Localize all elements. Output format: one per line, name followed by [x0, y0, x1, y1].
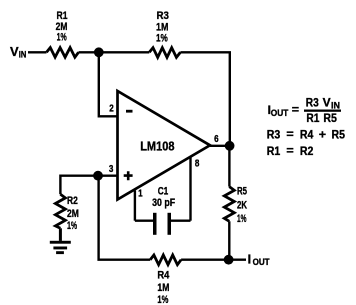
svg-text:3: 3 — [109, 163, 114, 175]
svg-text:+: + — [319, 127, 326, 141]
svg-text:OUT: OUT — [253, 257, 270, 267]
svg-text:R2: R2 — [67, 195, 78, 207]
svg-text:R4: R4 — [157, 270, 170, 282]
svg-text:IN: IN — [331, 100, 340, 110]
node VIN input label — [10, 44, 26, 60]
svg-text:R5: R5 — [332, 128, 346, 142]
svg-text:1: 1 — [138, 188, 143, 200]
node B pin 3 junction dot — [93, 171, 103, 181]
wire R2 to ground — [59, 228, 62, 241]
op-amp U1 LM108 triangle — [118, 91, 211, 200]
svg-text:V: V — [10, 44, 19, 59]
resistor R3 1M 1% — [149, 10, 180, 57]
svg-text:IN: IN — [19, 50, 27, 60]
non-inverting input plus symbol — [124, 171, 133, 180]
svg-text:R1: R1 — [267, 144, 281, 158]
ground — [50, 241, 71, 254]
svg-text:2K: 2K — [237, 200, 247, 212]
svg-text:OUT: OUT — [271, 108, 289, 118]
equation IOUT = R3 VIN / R1 R5 — [268, 95, 341, 125]
wire node C to IOUT terminal — [229, 259, 246, 261]
wire node A down to pin 2 — [99, 52, 117, 116]
equation R3 = R4 + R5 — [267, 127, 345, 141]
svg-text:C1: C1 — [158, 185, 169, 197]
svg-text:R4: R4 — [300, 128, 314, 142]
wire op-amp output to node D — [210, 145, 230, 147]
node IOUT label — [248, 251, 270, 267]
svg-text:=: = — [286, 127, 293, 141]
resistor R5 2K 1% — [224, 185, 247, 225]
svg-text:R1: R1 — [306, 111, 319, 125]
wire R3 right and down to pin 6 node — [180, 52, 229, 146]
svg-text:1%: 1% — [237, 213, 247, 225]
svg-text:1%: 1% — [156, 33, 168, 45]
wire R5 to node C — [228, 221, 230, 259]
node C output junction dot — [224, 255, 234, 265]
resistor R2 2M 1% — [55, 194, 79, 232]
svg-text:=: = — [292, 103, 299, 117]
svg-text:1%: 1% — [57, 32, 67, 44]
resistor R1 2M 1% — [47, 10, 79, 57]
wire pin 1 stub — [134, 191, 136, 221]
svg-text:V: V — [323, 95, 331, 109]
svg-text:R5: R5 — [237, 185, 247, 197]
svg-text:R5: R5 — [323, 111, 337, 125]
svg-text:LM108: LM108 — [140, 139, 174, 153]
wire pin 8 stub — [189, 157, 191, 221]
svg-text:R2: R2 — [300, 144, 314, 158]
svg-text:R3: R3 — [306, 95, 319, 109]
node D pin 6 junction dot — [225, 141, 235, 151]
wire node D down to R5 — [228, 146, 230, 187]
svg-text:2M: 2M — [67, 208, 79, 220]
svg-text:R3: R3 — [157, 10, 169, 22]
svg-text:8: 8 — [195, 157, 200, 169]
wire R4 to node C — [181, 259, 229, 261]
svg-text:2: 2 — [109, 103, 114, 115]
svg-text:1M: 1M — [157, 282, 169, 294]
svg-text:30 pF: 30 pF — [152, 197, 175, 209]
wire VIN to R1 — [28, 51, 47, 53]
svg-text:1%: 1% — [157, 294, 168, 305]
node A junction dot — [94, 47, 104, 57]
capacitor C1 30 pF — [135, 185, 191, 235]
svg-text:I: I — [248, 251, 252, 266]
equation R1 = R2 — [267, 143, 314, 157]
resistor R4 1M 1% — [150, 255, 181, 305]
wire R1 to R3 across node A — [79, 51, 150, 53]
wire node B down to bottom rail — [99, 176, 151, 260]
inverting input minus symbol — [126, 110, 133, 113]
wire pin 3 stub — [98, 174, 117, 176]
svg-text:R3: R3 — [267, 128, 281, 142]
svg-text:1%: 1% — [67, 220, 77, 232]
svg-text:6: 6 — [214, 133, 219, 145]
wire node B left to R2 — [60, 176, 98, 195]
svg-text:=: = — [286, 143, 293, 157]
